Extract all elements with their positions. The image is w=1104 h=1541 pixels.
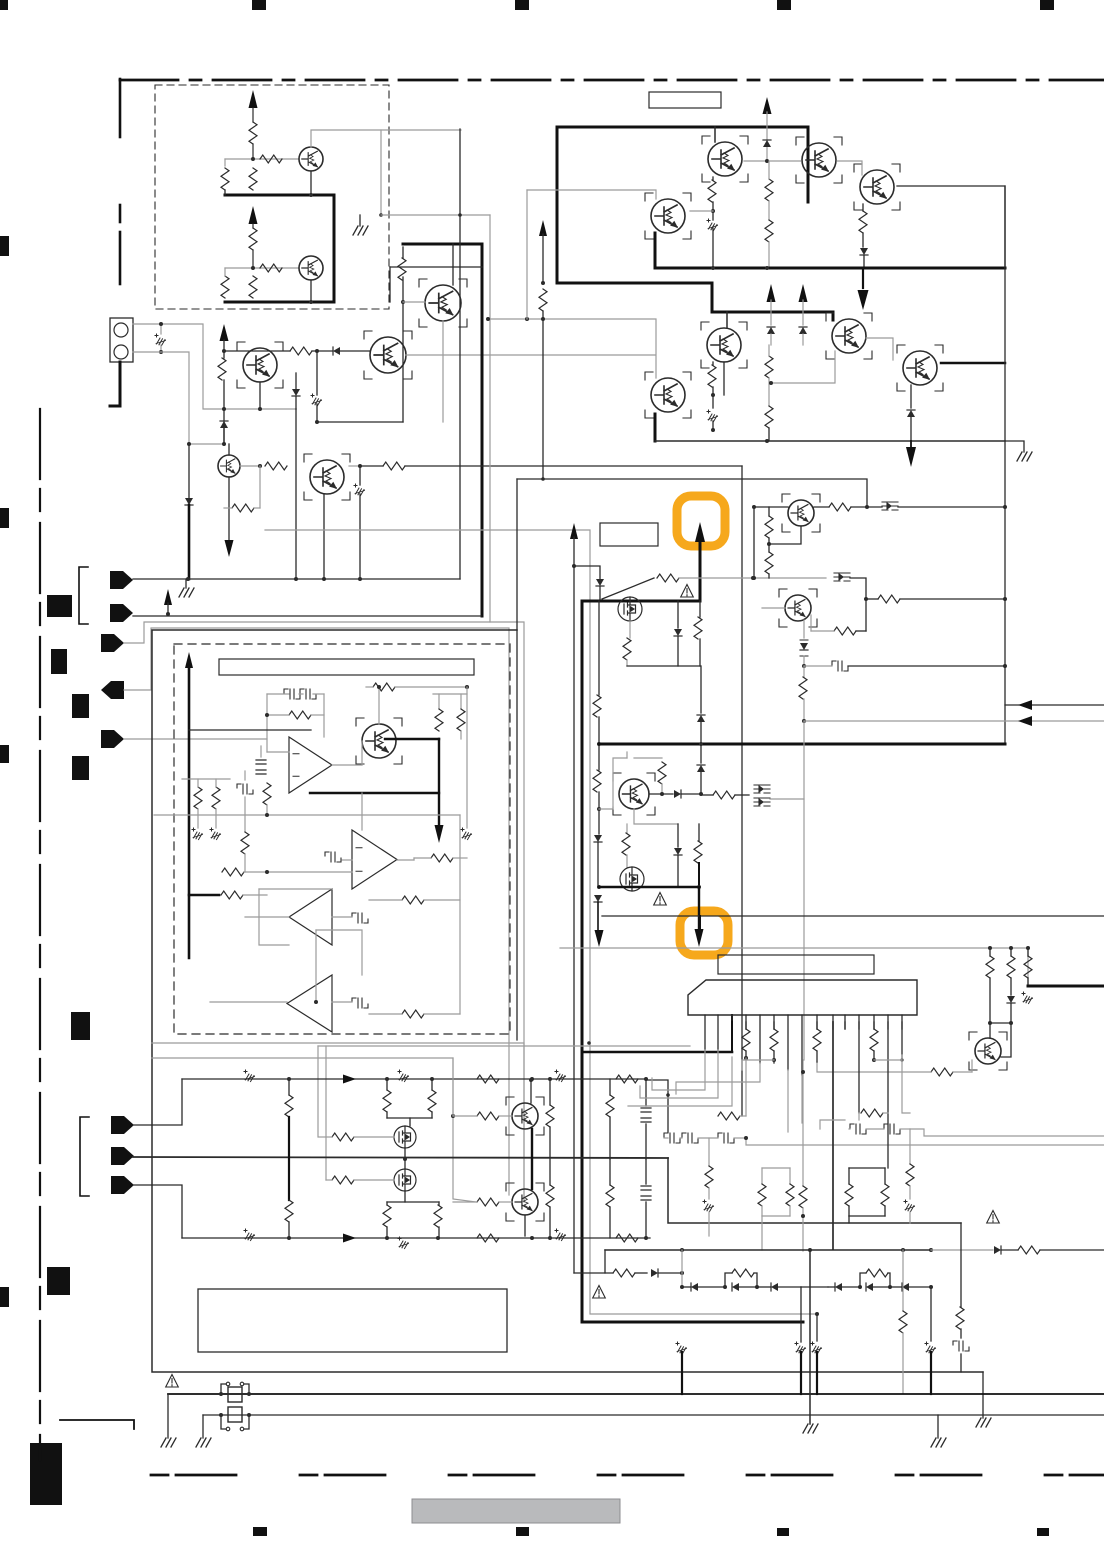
- pin long x845: [844, 1022, 846, 1029]
- arrow down x599: [595, 930, 604, 947]
- thick x439 arrow: [438, 739, 440, 826]
- resistor x771 low2: [765, 406, 773, 428]
- arrow down x910: [910, 441, 912, 448]
- wire: [259, 382, 261, 409]
- wire QB2 emitter: [524, 1215, 526, 1236]
- base res QB2: [477, 1198, 499, 1206]
- wire bus y579: [133, 578, 460, 580]
- resistor loop QD2: [834, 627, 856, 635]
- gate resistor MB1: [332, 1133, 354, 1141]
- arrow V+ lower: [249, 206, 258, 224]
- cap pair grp1: [682, 1133, 698, 1143]
- registration mark top x=777: [777, 0, 791, 10]
- transistor Q T1: [708, 142, 742, 176]
- emitter QD1: [769, 526, 801, 544]
- transistor Q T4: [651, 199, 685, 233]
- wire y815 long: [154, 814, 460, 816]
- cap A2: [325, 852, 341, 862]
- row3 wire: [182, 1237, 650, 1239]
- transistor Q big right: [370, 337, 406, 373]
- resistor bias3: [221, 276, 229, 298]
- registration mark bottom x=777: [777, 1528, 789, 1536]
- transistor Q T3: [860, 170, 894, 204]
- wire x324 to bus: [323, 494, 325, 579]
- wire: [252, 250, 254, 268]
- gray feed y1043: [152, 1043, 524, 1198]
- bus thick lower: [225, 301, 334, 304]
- cap x245: [244, 771, 246, 780]
- chain x701: [700, 666, 702, 713]
- wire y267: [390, 266, 482, 268]
- slant resistor wire: [602, 578, 654, 599]
- wire y1273: [574, 1272, 613, 1274]
- row1 wire: [182, 1078, 647, 1080]
- wire base small: [240, 465, 260, 467]
- base res QB1: [477, 1112, 499, 1120]
- registration mark top x=1040: [1040, 0, 1054, 10]
- resistor x769 b: [765, 220, 773, 242]
- chain1 down: [800, 1287, 802, 1342]
- page frame dashed bottom y=1475: [151, 1474, 1104, 1477]
- node: [251, 157, 255, 161]
- cap A4: [352, 998, 368, 1008]
- wire row1 feed: [133, 1079, 182, 1125]
- wire M1: [629, 621, 631, 638]
- fanout wire 8: [742, 1060, 774, 1070]
- transistor Q T6: [832, 319, 866, 353]
- cap col x646 a: [645, 1079, 647, 1106]
- cap pair A1: [284, 689, 300, 699]
- gray feed y1045: [318, 1045, 690, 1047]
- fanout wire 12: [902, 1060, 910, 1113]
- lower group thick: [557, 283, 712, 312]
- connector arrow B1: [111, 1116, 134, 1134]
- wire T5 riser: [726, 312, 728, 328]
- diode chain 2: [828, 1286, 835, 1288]
- opamp A2: [352, 830, 397, 889]
- node: [287, 1236, 291, 1240]
- arrow V+ mid: [220, 324, 229, 341]
- npn QR: [975, 1038, 1001, 1064]
- pin long x859: [858, 1022, 860, 1113]
- page frame dash-dot left x=40: [39, 409, 41, 1460]
- registration mark left y=508: [0, 508, 9, 528]
- wire A3 loop: [259, 888, 332, 890]
- hatch resistor x713: [707, 219, 718, 231]
- resistor QD2: [878, 595, 900, 603]
- base node QD1: [752, 505, 756, 509]
- fold mark left y=1267: [47, 1267, 70, 1295]
- orange arrow lower wire: [699, 916, 701, 928]
- npn QD1: [788, 500, 814, 526]
- wire base lower: [253, 267, 299, 269]
- resistor x267b: [263, 783, 271, 805]
- diode x678: [677, 601, 679, 628]
- chain x599: [598, 601, 600, 695]
- thick y744: [599, 743, 1005, 746]
- npn QB1: [512, 1103, 538, 1129]
- fanout wire 2: [640, 1050, 718, 1098]
- wire x582 thick: [581, 601, 584, 1322]
- capacitor chassis pin: [160, 324, 162, 334]
- wire cap: [267, 693, 289, 695]
- registration mark left y=1287: [0, 1287, 9, 1307]
- resistor under T3: [862, 204, 864, 211]
- arrow mid row1: [343, 1075, 356, 1084]
- resistor x461: [460, 694, 462, 709]
- chassis x466: [466, 687, 468, 828]
- wire x203: [202, 1415, 204, 1438]
- resistor: [249, 228, 257, 250]
- resistor: [218, 358, 226, 380]
- chassis xr3: [1022, 992, 1033, 1004]
- vert x403: [402, 277, 404, 422]
- transistor Q small x229: [218, 455, 240, 477]
- thick x699 arrow: [698, 887, 700, 928]
- opamp A1: [289, 737, 332, 793]
- input arrow y705: [1005, 704, 1104, 706]
- wire dgate2: [850, 578, 866, 599]
- dashed box voltage-amp upper-left: [155, 85, 389, 309]
- label box IC: [718, 955, 874, 974]
- wire: [252, 108, 254, 122]
- transistor Q T7: [903, 351, 937, 385]
- resistor y858: [431, 854, 453, 862]
- wire y466 long: [360, 465, 383, 467]
- wire T3 right: [897, 186, 1005, 268]
- wire T445 collector: [452, 244, 454, 285]
- right col res x610 b: [609, 1159, 611, 1185]
- wire warn x168: [167, 1394, 169, 1438]
- arrow pair up2: [799, 284, 808, 302]
- connector 2-pin: [110, 318, 133, 362]
- wire y730: [189, 729, 311, 731]
- resistor under T1: [712, 177, 714, 180]
- base gray QD2: [762, 607, 785, 609]
- wire y478: [517, 479, 867, 507]
- resistor x700: [699, 601, 701, 617]
- wire x983 gnd: [982, 1372, 984, 1418]
- fanout wire 7: [801, 1075, 803, 1123]
- resistor x961: [960, 1223, 962, 1307]
- thick T8 stub: [654, 414, 657, 441]
- wire: [349, 465, 360, 467]
- label box mid: [600, 523, 658, 546]
- wire: [442, 321, 444, 422]
- fanout wire 5: [676, 1063, 760, 1094]
- resistor QD1 out: [829, 503, 851, 511]
- registration mark bottom x=253: [253, 1527, 267, 1536]
- pin resistor p874: [873, 1022, 875, 1029]
- res y1113 mid2: [861, 1109, 883, 1117]
- resistor base mid: [290, 347, 312, 355]
- connector arrow IN3: [101, 634, 124, 652]
- wire y666: [627, 665, 700, 667]
- label box big bottom: [198, 1289, 507, 1352]
- cap x961: [960, 1329, 962, 1338]
- wire y1250: [605, 1249, 931, 1251]
- dual gate D2: [834, 573, 850, 581]
- wire y694: [433, 693, 467, 695]
- wire to bus: [898, 506, 1005, 508]
- cap HH y1133: [664, 1133, 680, 1143]
- opamp A4: [287, 975, 332, 1032]
- wire x460 seg: [459, 815, 461, 1014]
- chassis x931: [930, 1287, 932, 1341]
- fold mark left y=649: [51, 649, 67, 674]
- resistor y466: [383, 462, 405, 470]
- wire T4 base left: [527, 190, 656, 199]
- bus y1394: [168, 1393, 1104, 1395]
- loop grp1: [762, 1167, 790, 1169]
- wire x517 box: [516, 479, 518, 1040]
- transistor Q upper: [299, 147, 323, 171]
- gnd x938: [937, 1415, 939, 1438]
- thick QA out: [385, 738, 439, 740]
- right bus x1005: [1004, 186, 1006, 744]
- wire Q down: [634, 809, 678, 824]
- resistor col xr2: [1010, 948, 1012, 956]
- page frame dashed top: [120, 79, 1104, 82]
- thick bus y268: [655, 267, 1005, 270]
- node: [315, 349, 319, 353]
- wire y1250 right: [931, 1249, 993, 1251]
- resistor under T5: [712, 362, 714, 365]
- wire nest2: [124, 628, 509, 1195]
- left column x289: [288, 1079, 290, 1095]
- wire T2-T3: [837, 161, 862, 175]
- fuse f6: [555, 1229, 566, 1241]
- input arrow y721: [804, 720, 1104, 722]
- solo col x803: [802, 1060, 804, 1186]
- node: [287, 1077, 291, 1081]
- page frame dash-dot left upper x=120: [119, 79, 122, 137]
- wire y1145 exit: [746, 1138, 1104, 1145]
- res x910: [909, 1129, 911, 1164]
- vert diode x296: [295, 373, 297, 389]
- registration mark left y=236: [0, 236, 9, 256]
- diode: [220, 421, 228, 428]
- wire base: [403, 301, 425, 303]
- fold mark bottom-left big: [30, 1443, 62, 1505]
- chassis x217: [215, 809, 217, 828]
- cap x261: [256, 760, 266, 764]
- mosfet MB2: [394, 1169, 416, 1191]
- warning mid-left low: [593, 1286, 606, 1299]
- arrow V+ upper: [249, 90, 258, 108]
- wire: [228, 444, 230, 455]
- res x709 low: [708, 1138, 710, 1166]
- thick x189 to bus: [188, 505, 191, 579]
- pin resistor p817: [816, 1022, 818, 1029]
- resistor bias4: [249, 276, 257, 298]
- wire emitter res: [259, 466, 261, 508]
- thick top bus: [557, 127, 808, 283]
- zener x804: [803, 620, 805, 638]
- bus thick vertical: [333, 195, 336, 302]
- thick y1052: [582, 1051, 732, 1054]
- arrow orange up: [695, 522, 705, 542]
- label box top: [649, 92, 721, 108]
- diode x910: [910, 385, 912, 408]
- connector arrow OUT1: [101, 681, 124, 699]
- wire: [223, 340, 225, 358]
- diode left: [312, 350, 333, 352]
- resistor y872: [222, 868, 244, 876]
- wire x801-828: [801, 1286, 828, 1288]
- npn QB2: [512, 1189, 538, 1215]
- connector arrow B3: [111, 1176, 134, 1194]
- diode x864: [860, 248, 868, 255]
- ground bus: [185, 579, 187, 588]
- warning triangle mid: [681, 585, 694, 598]
- res x849: [848, 1168, 850, 1184]
- resistor x402: [398, 258, 406, 280]
- res below b: [438, 1202, 440, 1205]
- node: [711, 428, 715, 432]
- fold mark left y=694: [72, 694, 89, 718]
- thick y1322: [582, 1321, 803, 1324]
- relay box2: [228, 1407, 242, 1422]
- bus thick upper: [225, 194, 334, 197]
- chassis x202: [197, 809, 199, 828]
- wire x460 upper: [459, 129, 461, 579]
- wire x543: [539, 220, 547, 236]
- wire x324: [323, 694, 325, 737]
- rv x769 a: [765, 516, 773, 538]
- connector arrow IN2: [110, 604, 133, 622]
- transistor QA: [362, 724, 396, 758]
- wire y351: [224, 350, 290, 352]
- registration mark bottom x=516: [516, 1527, 529, 1536]
- gray x453 col: [452, 1058, 454, 1116]
- wire: [252, 144, 254, 159]
- registration mark top x=252: [252, 0, 266, 10]
- registration mark top x=515: [515, 0, 529, 10]
- bracket connector group1: [79, 567, 88, 624]
- chassis x801: [795, 1342, 806, 1354]
- wire x267: [266, 694, 268, 752]
- cap pair grp2: [850, 1124, 866, 1134]
- diode chain 1: [682, 1286, 691, 1288]
- wire y441: [655, 440, 1005, 442]
- wire x810: [809, 1250, 811, 1424]
- corner x668: [646, 1080, 668, 1132]
- wire dgate out: [770, 799, 804, 1060]
- wire x362 down: [361, 793, 363, 830]
- fold mark left y=1012: [71, 1012, 90, 1040]
- pin resistor p774: [773, 1022, 775, 1029]
- pin long x902: [901, 1022, 903, 1060]
- wire x296 to bus: [295, 409, 297, 579]
- resistor x439: [438, 694, 440, 709]
- arrow down: [225, 540, 234, 557]
- res x762: [761, 1168, 763, 1184]
- dual gate D1: [882, 502, 898, 510]
- wire pin2: [133, 352, 224, 444]
- wire y916: [602, 915, 1104, 917]
- resistor pair x198: [194, 787, 202, 809]
- thick x532: [531, 1129, 533, 1189]
- resistor y687: [373, 683, 395, 691]
- fold mark left y=595: [47, 595, 72, 617]
- vert diode x189: [188, 444, 190, 498]
- wire MB1-MB2: [404, 1148, 406, 1169]
- wire y215: [381, 214, 490, 216]
- wire collector upper: [311, 130, 461, 147]
- fold mark left y=756: [72, 756, 89, 780]
- ground y441: [1005, 441, 1024, 452]
- res pair above M1 a: [386, 1079, 388, 1090]
- wire base upper: [253, 158, 299, 160]
- resistor x803: [803, 666, 805, 677]
- node: [251, 266, 255, 270]
- resistor x662: [634, 757, 662, 759]
- fanout wire 4: [745, 1058, 747, 1116]
- res col x550 a: [549, 1079, 551, 1105]
- wire T6-T7: [866, 338, 893, 360]
- wire emitter upper: [310, 171, 312, 195]
- fanout wire 6: [787, 1070, 789, 1132]
- resistor R upper: [249, 122, 257, 144]
- registration mark top-left: [0, 0, 8, 10]
- base wire Q: [649, 793, 673, 795]
- node: [222, 442, 226, 446]
- registration mark left y=745: [0, 745, 9, 763]
- resistor x771 low: [765, 356, 773, 378]
- node: [294, 577, 298, 581]
- wire A3: [245, 916, 289, 918]
- transistor Q mid-left: [243, 348, 277, 382]
- wire row2: [133, 615, 481, 617]
- transistor Q lower: [299, 256, 323, 280]
- thick riser x732: [731, 1015, 733, 1052]
- thick bus y601: [582, 600, 700, 603]
- dual mosfet pair1: [754, 785, 770, 793]
- rv x769 b: [765, 552, 773, 574]
- wire T7 right: [941, 362, 1005, 365]
- wire row2: [133, 1157, 668, 1158]
- right col res x610 a: [609, 1079, 611, 1095]
- wire x490: [489, 215, 491, 622]
- npn Q x634: [619, 779, 649, 809]
- registration mark bottom x=1037: [1037, 1528, 1049, 1536]
- wire y422: [317, 421, 403, 423]
- transistor Q x327: [310, 460, 344, 494]
- wire x574: [570, 523, 578, 539]
- wire y1136 exit: [910, 1129, 1104, 1136]
- diode x598: [598, 809, 600, 834]
- gray feed x453: [152, 1058, 476, 1202]
- thick x482: [481, 244, 484, 616]
- chassis x682: [676, 1342, 687, 1354]
- wire T4 join: [690, 210, 713, 212]
- resistor h y508: [232, 504, 254, 512]
- base resistor QR: [931, 1068, 953, 1076]
- resistor y900: [402, 896, 424, 904]
- bridge res 2: [860, 1273, 866, 1287]
- wire pin1: [133, 324, 296, 409]
- resistor x769: [765, 179, 773, 201]
- wire y530: [265, 530, 817, 1314]
- node: [222, 349, 226, 353]
- fanout wire 1: [652, 1050, 705, 1090]
- res below a: [386, 1202, 388, 1205]
- stub thick connector: [119, 362, 122, 406]
- pin long x833: [832, 1022, 834, 1249]
- arrow up small: [164, 589, 172, 605]
- connector arrow IN5: [101, 730, 124, 748]
